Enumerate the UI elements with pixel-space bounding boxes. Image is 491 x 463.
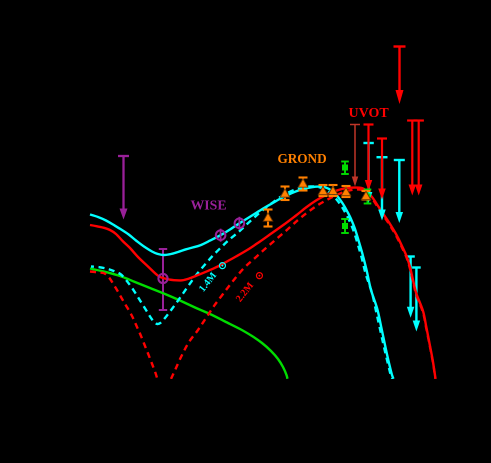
svg-text:WISE: WISE [191, 198, 227, 213]
svg-text:GROND: GROND [278, 151, 327, 166]
svg-text:UVOT: UVOT [349, 106, 390, 121]
